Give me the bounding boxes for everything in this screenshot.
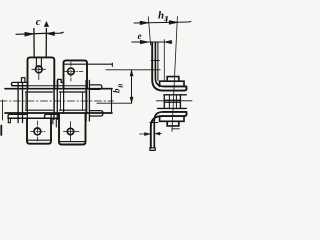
top wide block [160, 81, 184, 86]
bB bottom arrow [130, 97, 133, 103]
roller edge lines [26, 93, 83, 111]
foot lip top-left [22, 78, 25, 83]
tab B1 inner bottom edge [27, 139, 51, 141]
foot lip bottom-left [8, 118, 10, 122]
bB vertical dimension line [131, 70, 133, 103]
bottom attachment leg [151, 116, 162, 148]
svg-text:B: B [118, 83, 125, 89]
chain inner verticals [169, 95, 176, 109]
outer link plate bottom edge [5, 112, 112, 114]
e right arrow [165, 40, 172, 43]
tab B2 hole centerline [64, 122, 80, 143]
bottom leg end cap [150, 148, 155, 151]
h3 left extension [148, 17, 150, 45]
chain block sides [164, 95, 180, 109]
dimension c4 line [16, 32, 63, 34]
bB top extension line [106, 69, 160, 71]
bottom leg step tick [150, 122, 158, 124]
inner plate bottom edge segments [26, 109, 86, 111]
tab B2 inner bottom edge [59, 141, 85, 143]
tab T1 hole slot lines [36, 58, 41, 67]
s arrow left [140, 133, 148, 135]
e right extension / hole line [163, 40, 165, 82]
bottom foot plate [162, 112, 187, 116]
foot bar right of T2 [90, 85, 102, 89]
secondary bottom strip line [8, 117, 59, 119]
tab T2 inner top edge extending right [64, 63, 113, 65]
svg-text:3: 3 [163, 14, 168, 23]
svg-text:c: c [36, 16, 41, 28]
bB top arrow [130, 70, 133, 76]
chain inner lines [164, 100, 180, 102]
label c4 [36, 10, 169, 93]
pin 2 [54, 81, 57, 120]
bB bottom extension line [97, 102, 132, 104]
top attachment leg [152, 43, 163, 91]
attachment tab B1 (bottom-left) [27, 118, 51, 143]
tab B1 hole [34, 128, 41, 135]
right view chain bottom edge [158, 107, 187, 109]
label bB (rotated) [112, 83, 125, 93]
inner plate top edge segments [26, 91, 86, 93]
plate right end [111, 89, 113, 113]
svg-text:e: e [138, 31, 142, 41]
h3 right arrow [169, 21, 178, 25]
end tick of extended edge [111, 63, 113, 67]
tab T1 hole centerline [32, 67, 46, 80]
c4 left arrow [25, 32, 34, 36]
tab B1 hole centerline [31, 121, 47, 142]
foot bar far bottom-left [8, 114, 27, 118]
attachment tab B2 (bottom-right) [59, 114, 86, 145]
centerline bottom tick [172, 128, 180, 130]
top leg third edge [157, 43, 159, 81]
tab T2 hole [68, 68, 75, 75]
foot bar far top-left [11, 82, 27, 85]
bottom narrow block [167, 121, 179, 126]
e left arrow [140, 40, 149, 44]
top narrow block [167, 77, 179, 82]
bottom attachment leg inner [154, 112, 162, 148]
right view chain top edge [164, 94, 187, 96]
top attachment leg inner [155, 43, 163, 87]
c4 extension lines [34, 29, 47, 58]
small tick right of h3 label [165, 18, 167, 23]
pin 3 [86, 80, 89, 121]
h3 left arrow [140, 21, 149, 25]
tab T1 hole [35, 66, 42, 73]
h3 dimension line [134, 21, 191, 23]
foot bar right of B2 [90, 111, 103, 116]
pin 1 [18, 83, 22, 123]
top leg step tick [151, 60, 159, 62]
top foot plate [163, 86, 186, 90]
chain horizontal centerline [156, 100, 192, 102]
attachment tab T1 (top-left) [28, 57, 55, 88]
tab B2 hole [67, 128, 73, 134]
bottom wide block [160, 116, 184, 121]
foot bar + lip between B1 and B2 [45, 114, 60, 118]
tab T2 hole centerline [63, 62, 83, 81]
left edge stub [2, 100, 4, 120]
secondary top strip line [12, 85, 88, 87]
svg-text:h: h [158, 10, 164, 22]
chain centerline [0, 100, 114, 102]
c4 subscript triangle [44, 22, 49, 27]
c4 right arrow [46, 32, 54, 36]
foot lip between T1 and T2 [58, 79, 64, 88]
outer link plate top edge [5, 88, 112, 90]
e dimension line [132, 41, 172, 43]
left edge mark bottom [0, 126, 2, 136]
s arrow right [158, 133, 162, 135]
chain vertical centerline [172, 17, 177, 132]
attachment tab T2 (top-right) [64, 60, 88, 88]
tab edge continuations through band [27, 89, 86, 119]
